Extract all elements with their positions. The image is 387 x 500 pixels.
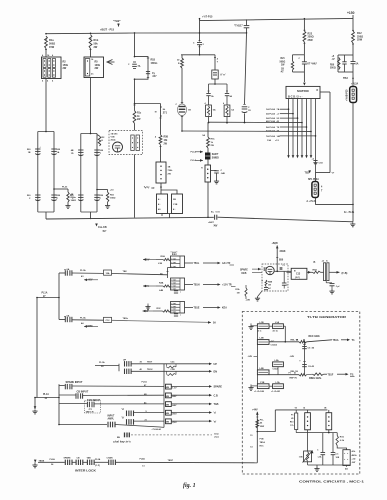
label P1B TB1A R1C	[250, 435, 265, 448]
svg-text:3A PL2A: 3A PL2A	[266, 117, 275, 120]
resistor R6A	[313, 269, 321, 274]
svg-text:0A: 0A	[213, 109, 216, 112]
label -24V left	[248, 355, 258, 358]
resistor R2K	[97, 135, 105, 147]
wire interlock 2	[72, 461, 75, 463]
wire updn stub	[95, 364, 119, 372]
label d PL3b	[307, 201, 317, 203]
wire row tab out	[171, 403, 218, 407]
capacitor 6A lower	[64, 315, 72, 323]
svg-text:×∙×н×: ×∙×н×	[171, 279, 176, 282]
svg-text:25W: 25W	[308, 39, 314, 42]
svg-text:TB1b: TB1b	[123, 318, 129, 320]
label -25V in	[143, 258, 156, 261]
svg-text:750k: 750k	[168, 170, 174, 172]
wire matrix column 1	[287, 99, 290, 159]
wire matrix column 3	[296, 99, 299, 159]
wire row tab cont	[94, 402, 164, 405]
relay coil REL1A	[291, 335, 321, 343]
svg-text:R5B: R5B	[164, 137, 169, 139]
svg-text:4A PL2A: 4A PL2A	[266, 130, 275, 133]
wire Y jog	[316, 172, 335, 175]
svg-text:4Ω: 4Ω	[345, 468, 348, 471]
boxed resistor 0A	[205, 102, 217, 117]
resistor block R2	[42, 57, 69, 79]
svg-text:TB1P: TB1P	[168, 460, 174, 462]
svg-text:REC GEN.: REC GEN.	[309, 335, 321, 338]
ground gen row5	[248, 384, 272, 390]
connector SHIFT blob	[205, 148, 219, 160]
wire gen left rail	[256, 329, 258, 386]
label +1/2AB	[345, 89, 349, 101]
label TI-TB GENERATOR	[307, 315, 347, 319]
svg-text:C6·45: C6·45	[308, 365, 315, 368]
wire row cb cont	[83, 393, 164, 396]
svg-text:1.1V: 1.1V	[172, 387, 177, 389]
wire interlock 5	[116, 458, 258, 468]
box 40	[157, 194, 168, 214]
node Uy CF	[144, 183, 162, 194]
ground keyer	[255, 291, 262, 301]
capacitor AN 0.01	[207, 212, 220, 228]
svg-text:43: 43	[296, 338, 298, 341]
connector P2A pill	[350, 87, 357, 103]
resistor R2A	[156, 255, 171, 265]
coil L1A gen2	[271, 381, 283, 393]
svg-text:SPARE INPUT: SPARE INPUT	[66, 381, 83, 384]
wire row dn	[132, 368, 218, 373]
component A xx	[212, 62, 226, 84]
label PL1A 28	[99, 361, 105, 368]
svg-text:EБ: EБ	[117, 437, 120, 439]
svg-text:7A 6X5: 7A 6X5	[111, 133, 119, 136]
svg-text:×∙×н×: ×∙×н×	[171, 288, 176, 291]
svg-text:7A: 7A	[138, 65, 141, 68]
relay block AA3	[171, 302, 185, 317]
terminal MB5	[166, 419, 178, 424]
svg-text:R1C: R1C	[260, 445, 265, 447]
svg-text:DN: DN	[214, 371, 218, 374]
capacitor C1B oval	[175, 103, 191, 117]
svg-text:L1A: L1A	[276, 381, 281, 384]
node bracket 7A	[134, 56, 148, 80]
wire interlock 3	[83, 461, 87, 463]
svg-text:PL4A: PL4A	[140, 458, 146, 461]
svg-text:1A: 1A	[356, 63, 359, 66]
capacitor C1A ladder1	[51, 149, 61, 155]
svg-text:L1B: L1B	[260, 322, 265, 324]
wire row ampl	[58, 424, 107, 426]
svg-text:+1○Ω+16B: +1○Ω+16B	[254, 390, 264, 393]
svg-text:+B∅5: +B∅5	[272, 242, 279, 245]
wire row spare	[59, 381, 83, 385]
svg-text:1B: 1B	[28, 152, 31, 154]
ground R51	[105, 202, 110, 208]
svg-text:2A PL2A: 2A PL2A	[266, 113, 275, 116]
label PL1A 42	[43, 393, 49, 400]
coil L2B	[257, 368, 269, 375]
wire R5B down	[160, 145, 162, 162]
resistor P1L	[256, 417, 264, 428]
label +BPM	[84, 325, 98, 328]
wire branch5 to row6	[181, 116, 183, 132]
wire TB1E	[185, 306, 228, 310]
svg-text:А4V: А4V	[172, 404, 177, 407]
wire matrix column 2	[292, 99, 295, 159]
svg-text:MATRIX: MATRIX	[297, 89, 310, 93]
resistor R21	[280, 58, 294, 73]
label 0v PL4b	[344, 211, 355, 214]
capacitor Cy	[146, 72, 157, 79]
potentiometer 11B	[299, 450, 314, 465]
svg-text:AA1 TR: AA1 TR	[222, 262, 231, 265]
wire C2 drop	[199, 18, 201, 42]
wire matrix row 2	[266, 113, 294, 116]
svg-text:TB1H: TB1H	[194, 285, 200, 287]
svg-text:550Ω: 550Ω	[330, 67, 336, 69]
label C12 box	[104, 317, 112, 322]
svg-text:R50: R50	[330, 64, 335, 66]
label 271	[155, 107, 168, 116]
ground key sym	[145, 304, 150, 310]
wire R1b to box	[90, 49, 92, 58]
svg-text:SHIFT: SHIFT	[212, 154, 219, 156]
wire ground bus left	[46, 217, 214, 219]
resistor R1a	[45, 36, 56, 49]
label -24V in	[143, 285, 156, 288]
svg-text:TB1F: TB1F	[328, 374, 334, 376]
wire 0A to bus	[208, 117, 210, 124]
wire row cb	[59, 390, 89, 395]
capacitor keyer c2	[282, 283, 289, 289]
wire TB1H	[185, 283, 236, 287]
wire row spare cont	[72, 380, 164, 387]
svg-text:2W: 2W	[63, 67, 67, 70]
svg-text:chan: chan	[214, 437, 220, 439]
resistor R50	[330, 56, 340, 69]
capacitor C645 b	[299, 361, 314, 368]
wire branch3 mid	[134, 79, 136, 104]
wire row AA1 lead	[59, 272, 65, 274]
socket V1 pins	[131, 135, 140, 151]
wire row spare out	[171, 385, 222, 389]
svg-text:'a': 'a'	[122, 408, 125, 411]
label +44V	[252, 409, 258, 412]
resistor block R2 cells	[42, 54, 56, 82]
svg-text:TAB INPUT: TAB INPUT	[87, 399, 101, 402]
label +PL2A	[351, 77, 359, 87]
wire row AA2	[72, 316, 104, 325]
svg-text:×∙×н×: ×∙×н×	[171, 257, 176, 260]
resistor R15	[336, 433, 347, 450]
label +150	[347, 11, 355, 15]
resistor R4A	[156, 281, 171, 291]
wire matrix column 6	[310, 99, 313, 159]
wire matrix column 4	[301, 99, 304, 159]
boxed resistor 1A	[223, 102, 234, 117]
node bracket R21	[293, 55, 305, 72]
svg-text:R6A: R6A	[313, 269, 318, 272]
svg-text:180Ω: 180Ω	[71, 200, 77, 202]
svg-text:C1B: C1B	[173, 204, 178, 206]
resistor R9a	[207, 137, 216, 148]
wire interlock 4	[94, 458, 108, 467]
svg-text:→PL2A 44: →PL2A 44	[151, 428, 162, 431]
svg-text:1M: 1M	[268, 285, 271, 287]
label CONTROL CIRCUITS	[299, 479, 365, 483]
svg-text:CB INPUT: CB INPUT	[77, 390, 89, 393]
wire keyer to C13	[287, 271, 292, 273]
svg-text:PL1A: PL1A	[42, 292, 48, 295]
wire R1a to box	[45, 49, 47, 58]
svg-text:3A: 3A	[229, 95, 232, 98]
wire row AA1	[72, 269, 104, 278]
svg-text:10B: 10B	[336, 457, 340, 459]
capacitor row spare	[65, 384, 72, 389]
ground right main	[350, 222, 355, 226]
svg-text:-24V: -24V	[290, 355, 295, 358]
svg-text:B C D / 2 + -: B C D / 2 + -	[288, 94, 303, 98]
label fig 1	[183, 483, 196, 489]
wire row tab	[59, 399, 101, 404]
svg-text:1500Ω: 1500Ω	[151, 62, 158, 65]
svg-text:34ΩK: 34ΩK	[280, 250, 286, 253]
svg-text:TB3: TB3	[343, 77, 348, 80]
ground input stem	[32, 406, 37, 414]
svg-text:L4B: L4B	[159, 289, 164, 292]
svg-text:-AT: -AT	[280, 70, 284, 73]
svg-text:R1A: R1A	[235, 288, 240, 291]
label AA	[171, 250, 179, 254]
capacitor C1B ladder1	[27, 146, 42, 154]
svg-text:2W: 2W	[94, 46, 98, 49]
wire row AA1 cont	[112, 271, 168, 275]
resistor R22	[303, 31, 314, 42]
svg-text:+150: +150	[347, 11, 355, 15]
svg-text:PL1A: PL1A	[191, 159, 197, 162]
svg-text:C12A3: C12A3	[271, 343, 278, 346]
label 4ohm -24	[345, 466, 348, 471]
capacitor up	[125, 361, 132, 366]
svg-text:+PL2A: +PL2A	[351, 82, 359, 85]
coil L1B	[257, 322, 269, 333]
resistor dn shunt	[167, 371, 177, 375]
svg-text:+1Ω: +1Ω	[352, 458, 356, 460]
coil L3B	[257, 338, 277, 347]
ground gen row1	[248, 323, 257, 329]
wire ladder1 right rail	[53, 132, 55, 213]
svg-text:INPUT: INPUT	[108, 415, 115, 417]
capacitor C2	[193, 40, 205, 54]
wire ladder1 left rail	[37, 132, 39, 213]
svg-text:C2B: C2B	[171, 369, 176, 371]
svg-text:1A: 1A	[57, 151, 60, 154]
wire gen node1	[269, 341, 299, 343]
svg-text:V1B: V1B	[111, 137, 116, 139]
svg-text:L2A: L2A	[275, 359, 280, 362]
coil L1A	[273, 321, 284, 333]
svg-text:1M: 1M	[237, 292, 240, 294]
capacitor E1	[117, 433, 129, 439]
wire row AA2 long	[112, 318, 217, 325]
wire matrix row 7	[266, 135, 316, 138]
wire branch3 lower	[134, 155, 136, 218]
wire shift to bus	[207, 182, 209, 217]
capacitor interlock tab	[87, 457, 95, 465]
svg-text:'а': 'а'	[214, 412, 217, 415]
capacitor C3A ladder2	[94, 150, 104, 156]
svg-text:∅6V: ∅6V	[172, 421, 177, 424]
svg-text:TI-TB GENERATOR: TI-TB GENERATOR	[307, 315, 347, 319]
wire 4T branch	[214, 55, 219, 64]
svg-text:1D: 1D	[248, 110, 251, 112]
svg-text:PL2A: PL2A	[50, 458, 56, 461]
wire 271 down	[160, 104, 162, 135]
svg-text:R21: R21	[281, 58, 286, 60]
wire char chan dashed	[131, 433, 220, 438]
resistor R50a	[67, 192, 77, 202]
svg-text:C1B: C1B	[260, 382, 265, 384]
label INTERLOCK	[75, 468, 96, 472]
wire matrix row4 bus	[208, 120, 303, 124]
wire matrix column 5	[305, 99, 308, 159]
svg-text:6A: 6A	[67, 268, 70, 271]
capacitor row tab	[87, 402, 94, 407]
ground R50a	[65, 202, 70, 208]
arrow off-page left	[107, 60, 115, 65]
svg-text:.1μf: .1μf	[336, 286, 340, 288]
wire row ampl cont	[115, 425, 164, 431]
svg-text:'в': 'в'	[214, 420, 217, 423]
svg-text:+½T·P15: +½T·P15	[202, 15, 213, 19]
svg-text:180Ω: 180Ω	[110, 197, 116, 199]
wire 1A to bus	[226, 117, 228, 124]
svg-text:7A: 7A	[277, 108, 280, 111]
svg-text:5A: 5A	[213, 322, 216, 325]
svg-text:+1○Ω+8Ω: +1○Ω+8Ω	[271, 390, 280, 393]
svg-text:×∙×н×: ×∙×н×	[171, 311, 176, 314]
wire R2 box down	[45, 79, 47, 132]
svg-text:л: л	[180, 315, 181, 317]
wire matrix row6 long	[182, 130, 312, 133]
wire ladder1 bottom	[38, 212, 54, 219]
capacitor C1D col7	[312, 159, 324, 165]
svg-text:×∙×н×: ×∙×н×	[171, 265, 176, 268]
capacitor 7A main	[128, 62, 141, 69]
svg-text:TB1T: TB1T	[147, 362, 153, 364]
svg-text:CH₂ KB: CH₂ KB	[98, 226, 107, 229]
svg-text:.047: .047	[152, 75, 157, 78]
svg-text:L3B: L3B	[260, 338, 265, 340]
node R1b junction	[90, 33, 92, 39]
wire R22 drop	[303, 19, 305, 31]
svg-text:11B: 11B	[299, 456, 303, 458]
wire PL1A stem	[36, 297, 59, 398]
ground interlock	[32, 460, 37, 468]
svg-text:1B: 1B	[281, 68, 284, 70]
capacitor keyer c1	[280, 265, 285, 270]
relay box A1b	[343, 450, 357, 466]
wire ground bus right	[218, 217, 353, 222]
wire ladder2 top	[81, 133, 97, 135]
wire row b	[134, 420, 165, 422]
wire key bus vertical	[58, 273, 60, 320]
capacitor 1A left	[206, 84, 214, 105]
wire ladder2 right rail	[96, 134, 98, 213]
svg-text:CB: CB	[77, 458, 81, 460]
svg-text:TAB T-R: TAB T-R	[86, 410, 95, 413]
resistor up shunt	[167, 364, 177, 368]
wire matrix D pin	[317, 90, 331, 172]
svg-text:TB1A: TB1A	[260, 441, 266, 444]
relay contacts K1	[305, 410, 311, 430]
capacitor interlock chan	[107, 457, 116, 465]
wire gen cap branch	[304, 341, 306, 375]
tube V2A keyer	[266, 266, 291, 283]
wire relay top rail	[275, 407, 327, 410]
wire K2 node	[296, 430, 337, 434]
wire gen node2	[269, 372, 299, 375]
wire matrix row 1	[266, 108, 289, 111]
svg-text:7A PL2A: 7A PL2A	[266, 135, 275, 138]
TI-TB generator dashed box	[242, 312, 359, 475]
svg-text:41○A: 41○A	[273, 329, 279, 332]
wire PL3 to right	[316, 198, 353, 205]
wire AA1-AA2 link	[160, 268, 171, 279]
svg-text:TB2: TB2	[305, 172, 310, 175]
svg-text:L1B: L1B	[158, 263, 163, 265]
wire input bus	[58, 384, 60, 424]
wire row cb out	[171, 394, 218, 397]
wire matrix row 3	[266, 117, 298, 120]
wire relay branch	[257, 410, 276, 432]
wire MB column	[163, 364, 165, 428]
node y84 bar	[209, 83, 228, 85]
svg-text:R2A: R2A	[161, 255, 166, 258]
resistor R6B	[262, 280, 273, 290]
relay block AA2	[171, 278, 185, 294]
wire row a	[134, 411, 165, 413]
capacitor C3B ladder2	[71, 149, 84, 156]
svg-text:15A: 15A	[105, 272, 109, 275]
wire top-right +150 bus	[200, 18, 354, 20]
svg-text:'Y': 'Y'	[332, 172, 335, 175]
resistor R10 17k	[290, 410, 298, 433]
terminal MB4	[166, 410, 178, 415]
svg-text:+B/4T: +B/4T	[208, 221, 214, 224]
wire C1D branch	[245, 33, 247, 104]
svg-text:6A: 6A	[67, 315, 70, 318]
svg-text:2B: 2B	[173, 199, 176, 201]
svg-text:B50: B50	[279, 260, 284, 262]
ground relay	[314, 465, 319, 471]
capacitor C2A ladder1	[51, 195, 61, 201]
coil L2A	[273, 359, 284, 375]
capacitor row ampl	[108, 422, 115, 428]
svg-text:L1A: L1A	[275, 321, 280, 324]
svg-text:PL1A: PL1A	[142, 380, 148, 383]
svg-text:PL1A: PL1A	[80, 269, 86, 272]
svg-text:4○C: 4○C	[258, 329, 262, 332]
svg-text:0v · PL4b: 0v · PL4b	[344, 211, 355, 214]
resistor R12	[352, 31, 364, 43]
wire keyer stem	[276, 245, 286, 271]
box C13	[291, 268, 307, 279]
svg-text:M: M	[155, 111, 157, 113]
svg-text:TB1U: TB1U	[147, 369, 153, 371]
socket V2	[156, 162, 173, 183]
svg-text:TAB: TAB	[214, 403, 219, 406]
